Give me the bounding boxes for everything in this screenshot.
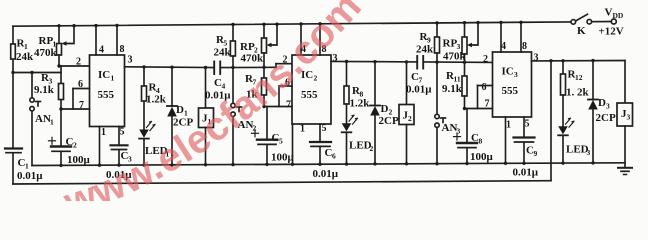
svg-text:555: 555 xyxy=(301,89,318,101)
relay coil J1 xyxy=(199,68,214,167)
capacitor C6 0.01u on pin5 xyxy=(310,124,339,180)
svg-text:100μ: 100μ xyxy=(470,151,494,163)
svg-text:0.01μ: 0.01μ xyxy=(406,84,432,96)
wire: IC3 pin1 ground drop xyxy=(504,117,507,165)
svg-text:3: 3 xyxy=(606,102,610,111)
svg-text:D: D xyxy=(176,104,184,116)
svg-text:3: 3 xyxy=(514,70,518,79)
svg-text:1.2k: 1.2k xyxy=(350,98,371,110)
svg-text:9.1k: 9.1k xyxy=(34,84,55,96)
svg-text:RP: RP xyxy=(39,35,54,47)
svg-text:9.1k: 9.1k xyxy=(442,83,463,95)
svg-text:2: 2 xyxy=(76,57,81,68)
switch K xyxy=(571,14,592,37)
svg-text:D: D xyxy=(598,97,606,109)
LED1 xyxy=(139,121,169,167)
svg-text:LED: LED xyxy=(566,144,589,156)
svg-text:1: 1 xyxy=(50,118,54,127)
svg-text:9: 9 xyxy=(534,149,538,158)
svg-text:D: D xyxy=(381,103,389,115)
svg-text:V: V xyxy=(605,7,613,19)
svg-text:2: 2 xyxy=(314,74,318,83)
resistor R12 1.2k xyxy=(561,61,590,126)
svg-text:1: 1 xyxy=(101,127,106,138)
svg-text:5: 5 xyxy=(322,123,327,134)
svg-text:8: 8 xyxy=(479,137,483,146)
relay coil J2 xyxy=(399,62,414,166)
resistor R8 1.2k xyxy=(344,62,370,123)
svg-text:3: 3 xyxy=(627,113,631,122)
LED3 xyxy=(558,118,590,165)
pushbutton AN2 xyxy=(231,67,257,166)
LED2 xyxy=(342,115,374,166)
wire: top VDD supply rail xyxy=(13,22,612,27)
capacitor C2 100u electrolytic xyxy=(49,109,91,167)
svg-text:555: 555 xyxy=(502,85,519,97)
wire: IC1 pin1 ground drop xyxy=(98,127,101,167)
capacitor C3 0.01u on pin5 xyxy=(106,127,132,182)
capacitor C8 100u electrolytic xyxy=(454,109,494,166)
svg-text:5: 5 xyxy=(279,137,283,146)
svg-text:470k: 470k xyxy=(34,47,58,59)
svg-text:1.2k: 1.2k xyxy=(146,94,167,106)
wire: outer feedback bottom line to C1 xyxy=(13,181,551,184)
svg-text:7: 7 xyxy=(286,100,291,111)
wire: IC2 pin4 supply drop xyxy=(299,22,302,55)
IC2 555 timer xyxy=(283,44,338,135)
svg-text:2CP: 2CP xyxy=(596,112,616,124)
svg-text:1: 1 xyxy=(24,42,28,51)
svg-text:555: 555 xyxy=(98,89,115,101)
svg-text:3: 3 xyxy=(128,55,133,66)
wire: IC1 pin3 output line to stage 2 xyxy=(125,64,293,70)
relay coil J3 xyxy=(617,61,633,163)
diode D1 2CP xyxy=(167,67,193,166)
svg-text:100μ: 100μ xyxy=(271,152,295,164)
svg-text:100μ: 100μ xyxy=(67,154,91,166)
wiper xyxy=(470,23,478,45)
pushbutton AN3 xyxy=(435,62,461,165)
watermark www.elecfans.com diagonal xyxy=(70,18,354,216)
svg-text:2: 2 xyxy=(483,54,488,65)
resistor R5 24k xyxy=(214,23,236,68)
svg-text:470k: 470k xyxy=(443,51,467,63)
diode D2 2CP xyxy=(370,62,399,166)
wire: IC2 pin3 output line to stage 3 xyxy=(331,60,493,64)
svg-text:1: 1 xyxy=(300,124,305,135)
svg-text:6: 6 xyxy=(482,82,487,93)
svg-text:24k: 24k xyxy=(214,47,232,59)
resistor R11 9.1k xyxy=(442,62,467,110)
capacitor C5 100u electrolytic xyxy=(252,107,295,167)
svg-text:4: 4 xyxy=(99,45,104,56)
svg-text:8: 8 xyxy=(522,41,527,52)
wire: IC2 pin1 ground drop xyxy=(291,124,294,166)
pushbutton AN1 xyxy=(30,73,54,166)
svg-text:0.01μ: 0.01μ xyxy=(313,168,339,180)
wiper xyxy=(270,24,278,45)
capacitor C1 0.01u xyxy=(5,149,43,183)
svg-text:RP: RP xyxy=(443,38,458,50)
wiper xyxy=(65,26,75,44)
wire: IC3 pin8 supply drop xyxy=(519,21,522,52)
svg-text:0.01μ: 0.01μ xyxy=(513,167,539,179)
svg-text:LED: LED xyxy=(349,140,372,152)
svg-text:IC: IC xyxy=(98,69,110,81)
wire: IC2 pin6-pin7 jumper xyxy=(264,86,292,107)
svg-text:6: 6 xyxy=(332,152,336,161)
node VDD +12V terminal xyxy=(599,7,624,38)
wire: IC1 pin8 supply drop xyxy=(115,24,118,55)
svg-text:5: 5 xyxy=(120,127,125,138)
wire: inner ground rail xyxy=(32,163,624,166)
wire: left edge from VDD rail down through R1 node to C1 and outer feedback line xyxy=(11,26,14,184)
svg-text:2: 2 xyxy=(370,144,374,153)
svg-text:AN: AN xyxy=(35,113,51,125)
wire: IC1 pin6-pin7 jumper xyxy=(59,89,89,111)
svg-text:IC: IC xyxy=(502,66,514,78)
wire: IC3 pin4 supply drop xyxy=(499,21,502,52)
svg-text:RP: RP xyxy=(240,41,255,53)
svg-text:+12V: +12V xyxy=(599,26,624,38)
IC3 555 timer xyxy=(482,41,539,131)
svg-text:DD: DD xyxy=(613,11,624,20)
svg-text:3: 3 xyxy=(587,148,591,157)
resistor R7 1k xyxy=(245,67,267,108)
svg-text:0.01μ: 0.01μ xyxy=(17,170,43,182)
resistor R9 24k xyxy=(416,21,440,62)
svg-text:24k: 24k xyxy=(416,44,434,56)
svg-text:2CP: 2CP xyxy=(379,115,399,127)
resistor R1 24k xyxy=(11,38,34,64)
svg-text:2: 2 xyxy=(408,114,412,123)
resistor R4 1.2k xyxy=(142,67,167,129)
svg-text:1: 1 xyxy=(506,120,511,131)
wire: IC3 pin3 output line xyxy=(532,59,626,63)
svg-text:AN: AN xyxy=(442,122,458,134)
svg-text:24k: 24k xyxy=(16,51,34,63)
wire: IC2 pin8 supply drop xyxy=(318,22,321,55)
potentiometer RP2 470k xyxy=(240,23,279,68)
wire: IC1 pin4 supply drop xyxy=(94,24,97,55)
svg-text:2: 2 xyxy=(73,141,77,150)
IC1 555 timer xyxy=(76,44,133,138)
resistor R3 9.1k xyxy=(34,72,64,109)
svg-text:K: K xyxy=(577,25,586,37)
capacitor C9 0.01u on pin5 xyxy=(513,117,539,179)
svg-text:3: 3 xyxy=(534,53,539,64)
potentiometer RP3 470k xyxy=(443,21,480,63)
wire: IC3 pin6-pin7 jumper xyxy=(465,86,493,109)
potentiometer RP1 470k xyxy=(34,24,76,66)
svg-text:1: 1 xyxy=(111,74,115,83)
wire: IC1 pin2 stub from RP1 bottom xyxy=(57,64,89,67)
diode D3 2CP xyxy=(588,61,616,165)
svg-text:12: 12 xyxy=(575,73,583,82)
svg-text:1. 2k: 1. 2k xyxy=(566,87,590,99)
wire: feedback from IC3 pin3 down to outer bottom line xyxy=(550,61,552,181)
capacitor C4 0.01u coupling xyxy=(205,62,231,102)
wire: stage1 trigger node line (R1/AN1/R3) xyxy=(13,66,61,74)
svg-text:3: 3 xyxy=(333,53,338,64)
svg-text:8: 8 xyxy=(120,44,125,55)
capacitor C7 0.01u coupling xyxy=(406,56,432,96)
svg-text:5: 5 xyxy=(525,119,530,130)
ground symbol xyxy=(618,163,632,175)
